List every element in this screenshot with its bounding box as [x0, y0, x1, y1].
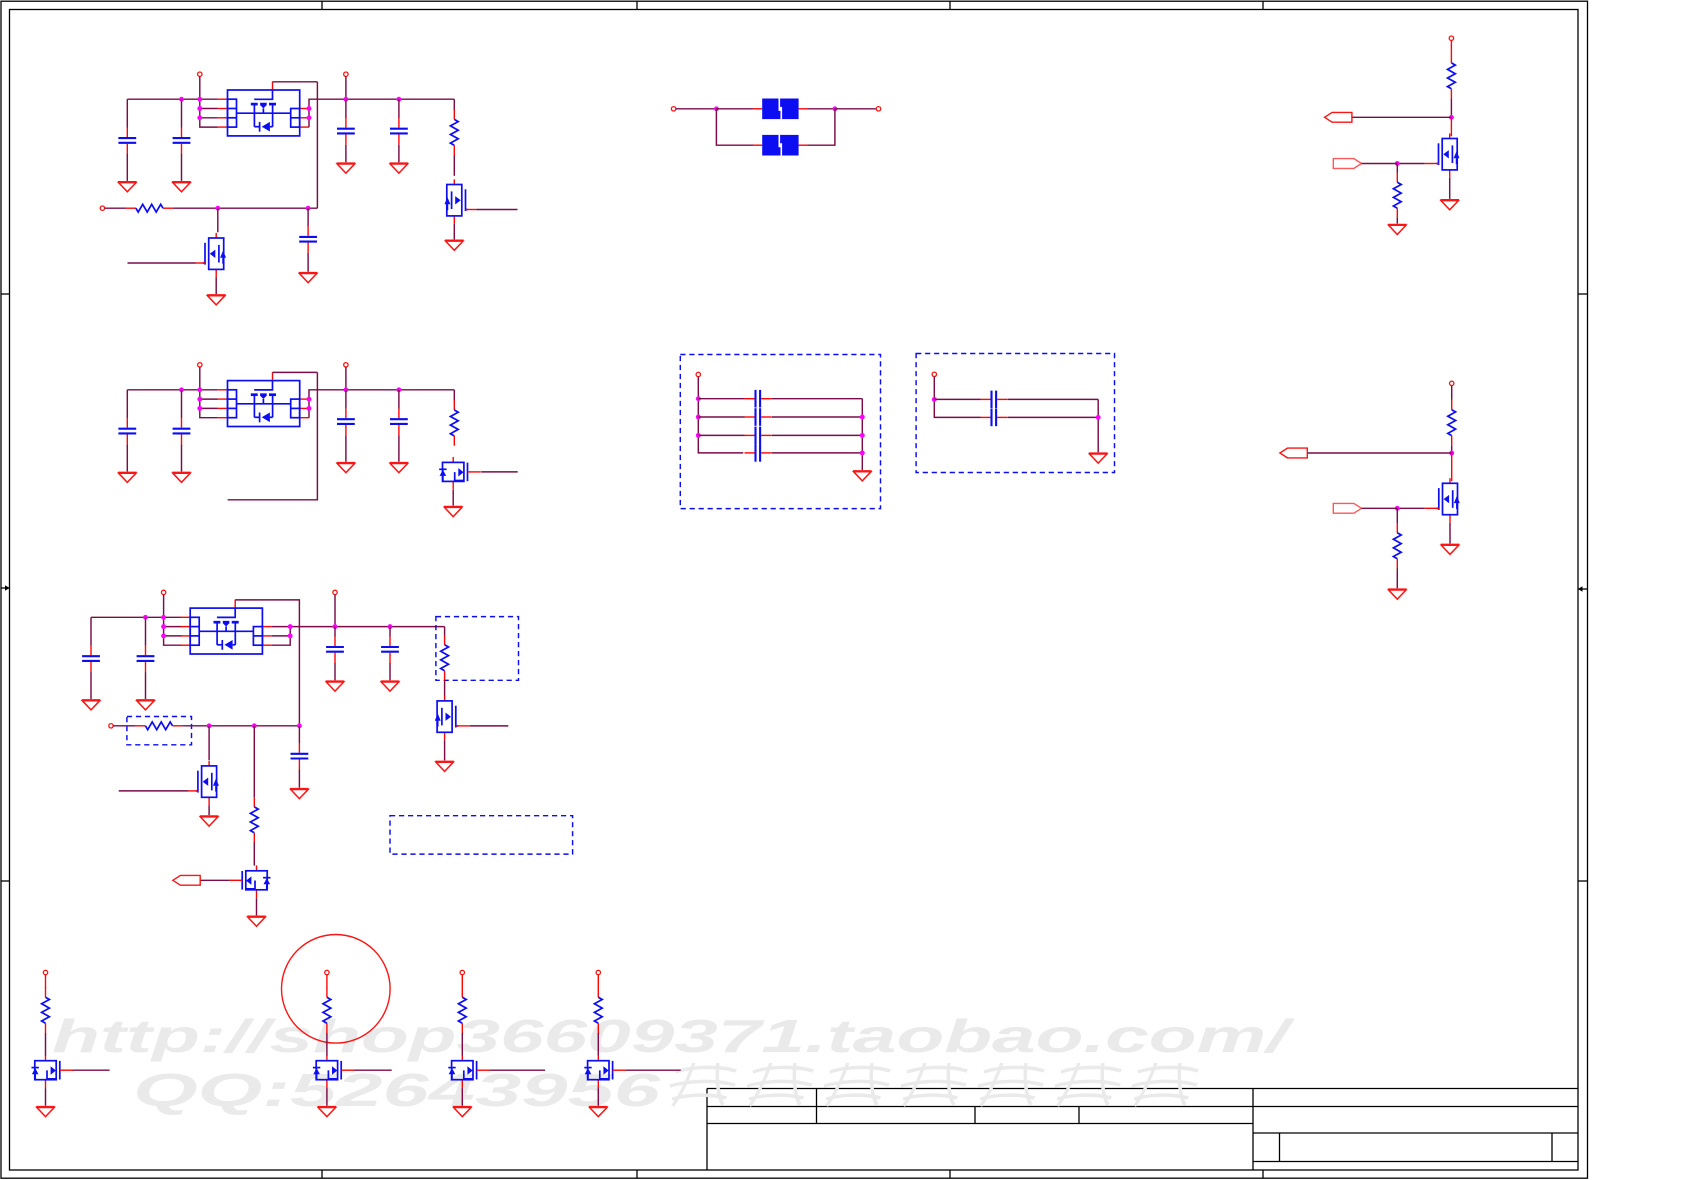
border zone tick left	[1, 880, 10, 882]
node junction	[1449, 451, 1454, 456]
node junction	[307, 115, 312, 120]
node junction	[696, 433, 701, 438]
wire B4 stem	[597, 975, 599, 988]
ground Q33	[247, 916, 266, 926]
wire MR top lead	[1451, 386, 1453, 400]
wire C32 bottom lead	[145, 672, 147, 699]
border zone tick bottom	[949, 1170, 951, 1178]
wire MR drain	[1451, 453, 1453, 481]
ground B2	[318, 1107, 337, 1117]
resistor R11	[450, 110, 458, 156]
transistor QMR	[1437, 478, 1460, 523]
wire fuse bottom branch left	[716, 109, 753, 145]
node junction	[860, 433, 865, 438]
wire TR gate red	[1425, 163, 1439, 165]
resistor R31	[441, 635, 449, 681]
ground C34	[381, 681, 400, 691]
border centre arrow right	[1578, 586, 1588, 591]
dashed box cap bank 2	[916, 354, 1114, 473]
capacitor CB11	[745, 390, 772, 408]
capacitor C22	[173, 418, 191, 445]
wire C3 port2 stem	[334, 595, 336, 627]
transistor QTR	[1436, 133, 1459, 178]
capacitor C32	[137, 646, 155, 673]
border zone tick bottom	[636, 1170, 638, 1178]
node junction	[161, 615, 166, 620]
border zone tick right	[1578, 293, 1588, 295]
wire B4 gate	[626, 1069, 681, 1071]
capacitor CB13	[745, 427, 772, 445]
ground C24	[390, 463, 409, 473]
node junction	[1395, 506, 1400, 511]
ground C33	[326, 681, 345, 691]
wire B2 gate	[354, 1069, 391, 1071]
ground C21	[118, 472, 137, 482]
wire Q12 gate red	[196, 262, 206, 264]
capacitor C35	[291, 743, 309, 770]
wire 1 pin3 link	[200, 117, 218, 119]
node junction	[215, 206, 220, 211]
wire C21 bottom lead	[126, 445, 128, 472]
port P1B	[344, 72, 348, 76]
wire C3 bus2 left	[113, 725, 135, 727]
wire Q21 gate	[481, 471, 518, 473]
wire C32 top lead	[145, 617, 147, 645]
wire C11 bottom lead	[126, 154, 128, 181]
wire Q12 gate	[128, 262, 196, 264]
wire MR gate red	[1425, 507, 1439, 509]
wire C13 bottom lead	[345, 145, 347, 163]
node junction	[161, 633, 166, 638]
wire C22 top lead	[181, 390, 183, 418]
node junction	[307, 397, 312, 402]
transistor QB3	[448, 1055, 490, 1088]
ground C22	[172, 472, 191, 482]
wire C34 bottom lead	[389, 663, 391, 680]
ground RMR2	[1388, 589, 1407, 599]
transistor Q32	[196, 761, 219, 806]
wire C24 top lead	[398, 390, 400, 409]
wire Q31 gate red	[456, 725, 470, 727]
border zone tick top	[636, 1, 638, 10]
wire TR top lead	[1450, 40, 1452, 53]
wire TR gate stub	[1362, 163, 1398, 165]
wire DB1 rail4 right	[772, 452, 863, 454]
wire TR r2 top	[1396, 164, 1398, 173]
wire B1 mid	[45, 1033, 47, 1056]
border zone tick right	[1578, 880, 1588, 882]
wire DB1 rail1 left	[698, 398, 744, 400]
node junction	[696, 396, 701, 401]
wire C1 bootstrap drop	[316, 82, 318, 208]
wire Q33 source	[256, 898, 258, 915]
dashed box spare area	[390, 816, 573, 854]
resistor R12	[126, 204, 173, 212]
port P2B	[344, 363, 348, 367]
ground C11	[118, 182, 137, 192]
ground QMR	[1441, 544, 1460, 554]
ground C13	[337, 163, 356, 173]
fuse F2	[753, 135, 808, 156]
wire B4 mid	[597, 1033, 599, 1056]
wire Q33 gate wire	[200, 879, 229, 881]
wire DB1 left rail	[698, 377, 743, 453]
wire 1 bus1 left	[127, 98, 218, 100]
wire 2 pin2 link	[200, 398, 218, 400]
border centre arrow left	[1, 585, 10, 590]
port B2	[325, 970, 329, 974]
wire Q31 gate	[470, 725, 509, 727]
transistor Q21	[439, 457, 481, 490]
node junction	[343, 97, 348, 102]
wire C24 bottom lead	[398, 435, 400, 462]
transistor Q33	[229, 865, 271, 898]
port P3B	[333, 590, 337, 594]
port arrow Q33 gate	[173, 875, 200, 885]
wire C3 right pin riser	[272, 627, 290, 646]
capacitor CB12	[745, 408, 772, 426]
wire 2 port2 stem	[345, 367, 347, 390]
wire C35 bottom lead	[298, 770, 300, 788]
dashed box cap bank 1	[680, 355, 880, 509]
wire DB2 left rail	[934, 377, 980, 418]
node junction	[333, 624, 338, 629]
wire fuse bottom branch right	[808, 109, 835, 145]
transistor QB4	[584, 1055, 626, 1088]
wire C21 top lead	[126, 390, 128, 418]
watermark line 2 cjk	[666, 1063, 1202, 1106]
port MR	[1450, 381, 1454, 385]
wire 2 pin4 link	[200, 390, 218, 418]
wire 1 right pin2 link	[308, 108, 310, 110]
ground C15	[299, 273, 318, 283]
border zone tick left	[1, 293, 10, 295]
wire C3 port1 stem	[163, 595, 165, 618]
wire C23 top lead	[345, 390, 347, 409]
wire C3 bootstrap loop	[235, 600, 299, 726]
wire C15 top lead	[307, 208, 309, 226]
node junction	[1096, 415, 1101, 420]
border zone tick bottom	[1262, 1170, 1264, 1178]
node junction	[696, 415, 701, 420]
node junction	[207, 723, 212, 728]
ground C23	[337, 463, 356, 473]
wire B2 source	[326, 1088, 328, 1106]
capacitor C21	[118, 418, 136, 445]
ground Q31	[435, 761, 454, 771]
wire C23 bottom lead	[345, 435, 347, 462]
port F-right	[876, 107, 880, 111]
transistor Q11	[445, 179, 468, 224]
capacitor C31	[82, 646, 100, 673]
wire Q11 gate	[476, 209, 517, 211]
capacitor C12	[173, 128, 191, 155]
wire B2 mid	[326, 1033, 328, 1056]
node junction	[179, 387, 184, 392]
resistor RB2	[323, 988, 331, 1034]
port F-left	[671, 107, 675, 111]
port DB2	[932, 372, 936, 376]
wire DB2 rail1 right	[1008, 398, 1098, 400]
wire 1 port2 stem	[345, 76, 347, 99]
ground C14	[390, 163, 409, 173]
node junction	[197, 106, 202, 111]
wire Q21 source	[452, 490, 454, 506]
wire C3 bus1 right	[272, 626, 445, 628]
port P1A	[198, 72, 202, 76]
marker circle	[282, 935, 391, 1044]
capacitor C14	[390, 118, 408, 145]
wire C12 top lead	[181, 99, 183, 127]
wire 1 port1 stem	[199, 76, 201, 99]
wire B3 source	[461, 1088, 463, 1106]
wire TR r2 bottom	[1396, 218, 1398, 224]
wire 1 pin2 link	[200, 108, 218, 110]
capacitor C13	[337, 118, 355, 145]
wire DB2 rail1 left	[934, 398, 980, 400]
ground C35	[290, 789, 309, 799]
wire C33 top lead	[334, 627, 336, 637]
wire MR r2 bottom	[1396, 569, 1398, 589]
ground Q11	[445, 240, 464, 250]
capacitor C11	[118, 128, 136, 155]
border zone tick top	[1262, 1, 1264, 10]
dual-MOSFET IC U3	[180, 600, 271, 654]
wire fuse feed	[676, 108, 717, 110]
wire Q32 gate	[119, 790, 189, 792]
node junction	[396, 97, 401, 102]
port P2A	[198, 363, 202, 367]
wire Q32 gate red	[188, 790, 198, 792]
wire Q32 source	[208, 805, 210, 815]
port arrow MR gate	[1333, 503, 1361, 513]
wire C13 top lead	[345, 99, 347, 118]
wire TR drain	[1450, 117, 1452, 136]
capacitor CB14	[745, 444, 772, 462]
port arrow TR gate	[1333, 159, 1361, 169]
ground Q32	[200, 816, 219, 826]
node junction	[714, 106, 719, 111]
wire B3 gate	[490, 1069, 545, 1071]
wire R11 bend	[453, 99, 455, 110]
resistor RTR1	[1448, 53, 1456, 99]
wire DB1 rail1 right	[772, 398, 863, 400]
ground Q12	[207, 295, 226, 305]
node junction	[932, 397, 937, 402]
wire DB1 right rail	[861, 399, 863, 470]
border zone tick top	[321, 1, 323, 10]
node junction	[860, 450, 865, 455]
wire C15 bottom lead	[307, 253, 309, 272]
node junction	[1449, 115, 1454, 120]
ground B3	[453, 1107, 472, 1117]
node junction	[307, 106, 312, 111]
ground RTR2	[1388, 225, 1407, 235]
resistor RB4	[594, 988, 602, 1034]
transistor Q12	[203, 233, 226, 278]
border zone tick bottom	[321, 1170, 323, 1178]
wire MR to arrow	[1307, 452, 1451, 454]
node junction	[197, 115, 202, 120]
wire 2 bootstrap loop	[273, 371, 318, 373]
node junction	[197, 387, 202, 392]
wire DB2 right rail	[1097, 399, 1099, 452]
wire C12 bottom lead	[181, 154, 183, 181]
dashed box resistor area	[436, 617, 519, 681]
wire fuse out	[835, 108, 876, 110]
wire C3 bus1 left	[91, 616, 182, 618]
wire B1 stem	[45, 975, 47, 988]
wire C33 bottom lead	[334, 663, 336, 680]
border zone tick top	[949, 1, 951, 10]
ground C32	[136, 700, 155, 710]
ground B1	[36, 1107, 55, 1117]
wire Q31 source	[444, 740, 446, 760]
node junction	[1395, 161, 1400, 166]
ground DB1	[853, 471, 872, 481]
wire C14 bottom lead	[398, 145, 400, 163]
resistor R32	[136, 722, 183, 730]
resistor RB1	[42, 988, 50, 1034]
node junction	[143, 615, 148, 620]
transistor Q31	[435, 696, 458, 741]
wire B1 gate	[73, 1069, 110, 1071]
port arrow MR out	[1280, 448, 1307, 458]
wire 1 bootstrap loop	[273, 81, 318, 83]
wire DB1 rail3 left	[698, 434, 744, 436]
port arrow TR out	[1325, 112, 1352, 122]
capacitor CB21	[981, 391, 1008, 409]
wire C14 top lead	[398, 99, 400, 118]
wire TR to arrow	[1352, 116, 1452, 118]
capacitor C23	[337, 409, 355, 436]
ground C12	[172, 182, 191, 192]
wire 2 bus1 left	[127, 389, 218, 391]
node junction	[306, 206, 311, 211]
dual-MOSFET IC U2	[218, 372, 309, 426]
wire bus2 mid	[173, 207, 318, 209]
node junction	[832, 106, 837, 111]
wire C2 bootstrap drop and tail	[228, 372, 318, 499]
fuse F1	[753, 98, 808, 119]
wire C3 pin3 link	[164, 635, 182, 637]
wire C34 top lead	[389, 627, 391, 637]
wire C3 pin2 link	[164, 626, 182, 628]
port B3	[460, 970, 464, 974]
port P3C	[109, 724, 113, 728]
wire C3 right pin2 link	[272, 635, 290, 637]
wire R21 bend	[453, 390, 455, 401]
node junction	[197, 406, 202, 411]
node junction	[288, 633, 293, 638]
wire DB1 rail2 left	[698, 416, 744, 418]
ground Q21	[444, 507, 463, 517]
wire R31 bend	[444, 627, 446, 636]
svg-text:QQ:52643956: QQ:52643956	[133, 1064, 661, 1116]
wire fuse top branch right	[808, 108, 835, 110]
port B4	[596, 970, 600, 974]
node junction	[252, 723, 257, 728]
capacitor C33	[326, 636, 344, 663]
wire R33 to Q33	[253, 842, 255, 865]
node junction	[197, 397, 202, 402]
wire MR gate stub	[1362, 507, 1398, 509]
capacitor C34	[381, 636, 399, 663]
wire 2 port1 stem	[199, 367, 201, 390]
node junction	[860, 415, 865, 420]
wire B3 mid	[461, 1033, 463, 1056]
title block	[707, 1089, 1578, 1171]
node junction	[288, 624, 293, 629]
wire MR gate	[1397, 507, 1424, 509]
wire C31 top lead	[90, 617, 92, 645]
wire 2 right pin riser	[309, 390, 454, 418]
wire B2 stem	[326, 975, 328, 988]
node junction	[343, 387, 348, 392]
wire MR r2 top	[1396, 508, 1398, 523]
resistor RTR2	[1393, 173, 1401, 219]
wire R33 top lead	[253, 726, 255, 797]
wire Q11 source	[453, 224, 455, 240]
resistor R21	[450, 400, 458, 446]
capacitor CB22	[981, 409, 1008, 427]
node junction	[297, 723, 302, 728]
svg-text:http://shop36609371.taobao.com: http://shop36609371.taobao.com/	[52, 1010, 1295, 1062]
resistor RMR1	[1448, 400, 1456, 446]
resistor RB3	[458, 988, 466, 1034]
ground B4	[589, 1107, 608, 1117]
wire fuse top branch left	[716, 108, 753, 110]
wire DB1 rail3 right	[772, 434, 863, 436]
wire R31 to Q31	[444, 681, 446, 697]
wire 1 pin4 link	[200, 99, 218, 127]
ground C31	[82, 700, 101, 710]
port B1	[43, 970, 47, 974]
wire DB1 rail2 right	[772, 416, 863, 418]
resistor RMR2	[1393, 523, 1401, 569]
wire B3 stem	[461, 975, 463, 988]
wire MR source	[1449, 523, 1451, 544]
wire B1 source	[45, 1088, 47, 1106]
wire C31 bottom lead	[90, 672, 92, 699]
ground QTR	[1440, 200, 1459, 210]
wire DB2 rail2 right	[1008, 416, 1098, 418]
wire TR source	[1449, 178, 1451, 199]
node junction	[307, 406, 312, 411]
node junction	[396, 387, 401, 392]
wire Q11 gate red	[466, 209, 477, 211]
dual-MOSFET IC U1	[218, 82, 309, 136]
wire 2 pin3 link	[200, 407, 218, 409]
wire MR mid	[1451, 445, 1453, 453]
wire C3 bus2 mid	[182, 725, 299, 727]
wire B4 source	[597, 1088, 599, 1106]
node junction	[179, 97, 184, 102]
wire TR mid	[1450, 99, 1452, 118]
capacitor C24	[390, 409, 408, 436]
wire C11 top lead	[126, 99, 128, 127]
wire 1 right pin riser	[309, 99, 454, 127]
node junction	[161, 624, 166, 629]
port P1C	[100, 206, 104, 210]
node junction	[197, 97, 202, 102]
transistor QB1	[32, 1055, 74, 1088]
port P3A	[161, 590, 165, 594]
wire Q12 drain	[217, 208, 219, 232]
wire Q32 drain	[208, 726, 210, 760]
port DB1	[696, 372, 700, 376]
dashed box bus resistor	[127, 717, 192, 745]
